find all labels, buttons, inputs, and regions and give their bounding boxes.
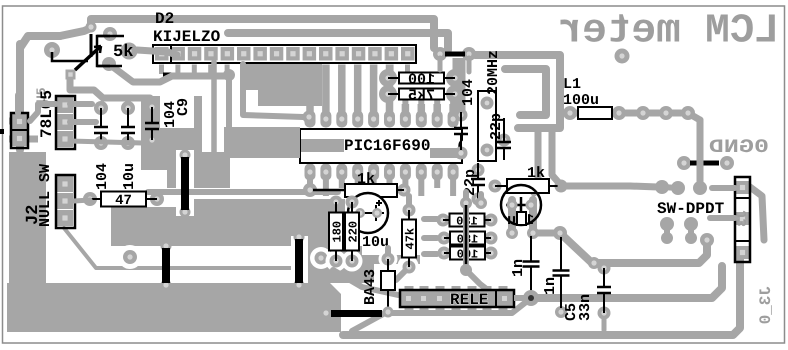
svg-text:47: 47: [115, 193, 132, 209]
resistor 220 vertical: [345, 196, 361, 268]
copper pour C9 area: [141, 96, 202, 170]
copper pour upper-mid piece: [114, 225, 189, 246]
pad L end: [303, 111, 316, 124]
wire pads right of header down: [440, 58, 469, 72]
wire caps bottom rail: [70, 141, 143, 143]
svg-text:LCM meter: LCM meter: [558, 9, 779, 55]
svg-text:20MHz: 20MHz: [485, 50, 502, 95]
copper text J3 small: [735, 210, 751, 227]
svg-text:180: 180: [331, 221, 345, 243]
resistor 180 vertical: [329, 196, 345, 268]
pad jumper right 1: [677, 156, 691, 170]
wire jumper bar 1: [180, 150, 191, 218]
wire stack to RELE: [466, 270, 489, 291]
wire black line near header: [163, 73, 222, 78]
wire loop drop a: [552, 130, 559, 183]
wire RELE to pad: [514, 295, 525, 301]
wire PIC bottom pin stubs: [310, 172, 453, 196]
copper pour center: [111, 199, 420, 283]
copper pour mid-left block: [167, 152, 230, 188]
wire through PIC right: [430, 148, 460, 158]
wire pot lower: [12, 139, 20, 155]
svg-text:NULL SW: NULL SW: [37, 164, 54, 227]
wire L1 row: [570, 113, 700, 158]
wire wiper to header: [137, 50, 177, 55]
svg-text:1k: 1k: [357, 171, 375, 188]
via black line end: [223, 69, 235, 81]
resistor stack 3: [438, 247, 498, 262]
wire 78L05 stub2: [70, 119, 96, 125]
wire cluster up to L1: [697, 120, 704, 188]
wire PIC top pin stubs: [310, 100, 453, 119]
capacitor C 10u electrolytic left: [348, 193, 388, 233]
wire jumper bar 3: [294, 232, 305, 291]
wire from 1k right: [561, 183, 630, 190]
cutout rings resistors: [326, 251, 419, 277]
label 33n: [577, 294, 594, 321]
label RELE: [450, 291, 488, 309]
label 20MHz: [485, 50, 502, 95]
regulator 78L05 header: [56, 96, 75, 149]
inductor L1: [563, 106, 626, 120]
connector D2 header pads: [155, 47, 415, 61]
capacitor C5 33n: [597, 262, 611, 320]
pad pot bottom: [102, 57, 116, 71]
pads right cluster lower: [661, 232, 714, 247]
wire through PIC left: [298, 139, 344, 152]
svg-text:L1: L1: [563, 76, 581, 93]
svg-text:5k: 5k: [113, 43, 133, 62]
pad left lead: [44, 42, 60, 58]
capacitor 104 near crystal: [454, 109, 468, 160]
IC U1 PIC16F690 outline: [300, 129, 462, 163]
wire right of J3: [750, 187, 764, 240]
svg-text:10u: 10u: [362, 234, 389, 251]
wire L down: [243, 64, 303, 117]
label 78L05: [38, 90, 56, 138]
wire lead through stack: [465, 205, 468, 266]
wire crystal loop outer: [475, 55, 560, 128]
connector J1: [9, 113, 38, 148]
cutout BA43 island: [374, 250, 420, 284]
pads right cluster upper: [671, 181, 707, 195]
wire BA43 up: [385, 248, 391, 262]
wire top rail 2: [228, 33, 448, 50]
resistor stack 1: [437, 214, 498, 229]
wire caps top rail: [70, 80, 150, 98]
connector J2: [56, 175, 75, 228]
resistor 1k right: [489, 179, 568, 193]
copper text GND: [709, 136, 769, 158]
label BA43: [362, 269, 379, 305]
label KIJELZO: [153, 28, 221, 46]
capacitor C3 10u: [121, 101, 138, 190]
wire 78L05 stub1: [70, 101, 92, 107]
wire 47k down: [396, 267, 409, 280]
wire under right cap: [512, 200, 558, 233]
wire vertical from via: [226, 75, 232, 129]
svg-text:33n: 33n: [577, 294, 594, 321]
pads above stack: [460, 197, 487, 209]
svg-text:RELE: RELE: [450, 291, 488, 309]
label 5k: [113, 43, 133, 62]
copper pour top-center under display header: [244, 64, 322, 106]
resistor 47: [83, 192, 164, 210]
wire 47k up: [406, 196, 412, 210]
cutout around bar1: [176, 150, 194, 216]
capacitor C9 104: [145, 98, 192, 147]
pad jumper right 2: [720, 156, 734, 170]
pad header-right 2: [462, 47, 476, 61]
wire bottom-left channel: [166, 266, 300, 270]
svg-text:C9: C9: [175, 98, 192, 116]
wire loop drop b: [534, 132, 538, 193]
wire pot feed: [60, 28, 91, 36]
wire C5 top link: [602, 263, 607, 268]
capacitor 1n a: [510, 236, 540, 295]
svg-text:KIJELZO: KIJELZO: [153, 28, 221, 46]
wire jumper bar horizontal: [321, 307, 394, 319]
label PIC16F690: [344, 137, 430, 155]
wire J3 stubs: [710, 188, 735, 218]
copper block left of PIC: [224, 127, 300, 158]
svg-text:104: 104: [460, 79, 477, 106]
wire header stubs: [162, 65, 408, 75]
wire bottom-left diagonal: [64, 228, 166, 268]
svg-text:100: 100: [408, 72, 435, 89]
crystal Y1 outline: [478, 91, 496, 161]
resistor 1k left: [303, 183, 411, 197]
wire right bundle B: [531, 266, 722, 298]
diode BA43: [381, 253, 395, 309]
pads PIC top row: [305, 111, 459, 128]
label 10u left: [362, 234, 389, 251]
wire J1 pad1 up: [15, 95, 21, 113]
wire under RELE: [352, 302, 526, 331]
capacitor 22p upper: [488, 113, 511, 160]
wire left edge vertical: [16, 44, 24, 150]
copper text U5 faint: [34, 87, 49, 103]
label L1: [563, 76, 581, 93]
label 104 top: [460, 79, 477, 106]
label 1k left: [357, 171, 375, 188]
resistor stack 2: [438, 232, 498, 247]
svg-text:10u: 10u: [121, 163, 138, 190]
copper pour left column: [9, 152, 46, 332]
pads L1 row: [636, 106, 695, 120]
wire cluster stubs: [667, 224, 691, 238]
pad header-right 1: [433, 47, 447, 61]
connector D2 header outline: [153, 45, 416, 63]
wire J2 to R47: [74, 200, 90, 201]
svg-text:PIC16F690: PIC16F690: [344, 137, 430, 155]
svg-text:220: 220: [347, 221, 361, 243]
wire pot to via: [109, 64, 226, 82]
pad pot square: [66, 70, 76, 80]
wire mid horizontal long: [148, 189, 338, 195]
svg-text:D2: D2: [155, 10, 174, 28]
wire J1 to 78L05: [30, 104, 56, 121]
wire behind stack: [424, 192, 481, 270]
svg-text:1n: 1n: [542, 277, 559, 295]
svg-text:BA43: BA43: [362, 269, 379, 305]
wire jumper right: [690, 161, 719, 166]
copper text LCM meter: [558, 9, 779, 55]
svg-text:100u: 100u: [563, 92, 599, 109]
wire left corner bend: [20, 36, 60, 48]
label SW-DPDT: [657, 200, 725, 218]
wire pot square down: [67, 74, 73, 80]
wire long vertical: [214, 62, 219, 165]
resistor 7k5: [379, 85, 464, 105]
wire bottom long: [343, 258, 740, 335]
svg-text:22p: 22p: [488, 113, 505, 140]
copper text J3_0: [757, 286, 775, 324]
wire crystal loop inner: [505, 69, 546, 115]
pads right cluster mid: [660, 217, 698, 231]
via near pot: [86, 22, 97, 33]
svg-text:7k5: 7k5: [408, 88, 435, 105]
wire jumper right of header: [445, 52, 465, 57]
label D2: [155, 10, 174, 28]
resistor 100: [379, 69, 464, 89]
via bottom-left: [123, 250, 137, 264]
svg-text:104: 104: [94, 163, 111, 190]
connector RELE: [400, 286, 514, 311]
svg-text:J3_0: J3_0: [757, 286, 775, 324]
label 1k right: [527, 165, 545, 182]
wire C5 down: [602, 313, 607, 330]
pads PIC bottom row: [305, 164, 459, 181]
wire top rail 1: [91, 19, 434, 48]
capacitor C 10u electrolytic right: [501, 185, 541, 229]
cutout around via: [118, 245, 142, 269]
svg-text:1k: 1k: [527, 165, 545, 182]
capacitor 1n b: [542, 237, 570, 318]
capacitor 22p lower: [462, 163, 485, 206]
capacitor C2 104: [94, 101, 111, 190]
label J2: [24, 205, 43, 225]
wire header-to-PIC verticals: [310, 58, 459, 119]
svg-text:78L05: 78L05: [38, 90, 56, 138]
cutout around bar3: [291, 236, 308, 283]
connector J3: [735, 177, 750, 262]
label 100u: [563, 92, 599, 109]
resistor 47k vertical: [402, 204, 418, 274]
svg-text:0GND: 0GND: [709, 136, 769, 158]
pad pot top: [103, 27, 117, 41]
pad pot wiper: [121, 43, 138, 60]
label C5: [563, 303, 580, 321]
wire to C9 block: [198, 164, 219, 169]
wire J1 tick on border: [0, 129, 4, 134]
pad right of RELE: [523, 290, 539, 306]
wire 1k right to cluster: [630, 180, 678, 194]
svg-text:47k: 47k: [404, 228, 418, 250]
wire pour to RELE: [333, 270, 398, 295]
svg-text:1n: 1n: [510, 259, 527, 277]
label NULL SW: [37, 164, 54, 227]
cutout pad in pour: [310, 247, 332, 269]
wire jumper bar 2: [161, 241, 172, 291]
copper pour bottom band: [7, 283, 341, 332]
via under meter text: [615, 49, 630, 64]
pad below stack: [460, 264, 472, 276]
trimmer R 5k symbol: [52, 34, 124, 70]
pads under right cap: [506, 226, 567, 240]
wire right bundle A: [560, 233, 707, 269]
